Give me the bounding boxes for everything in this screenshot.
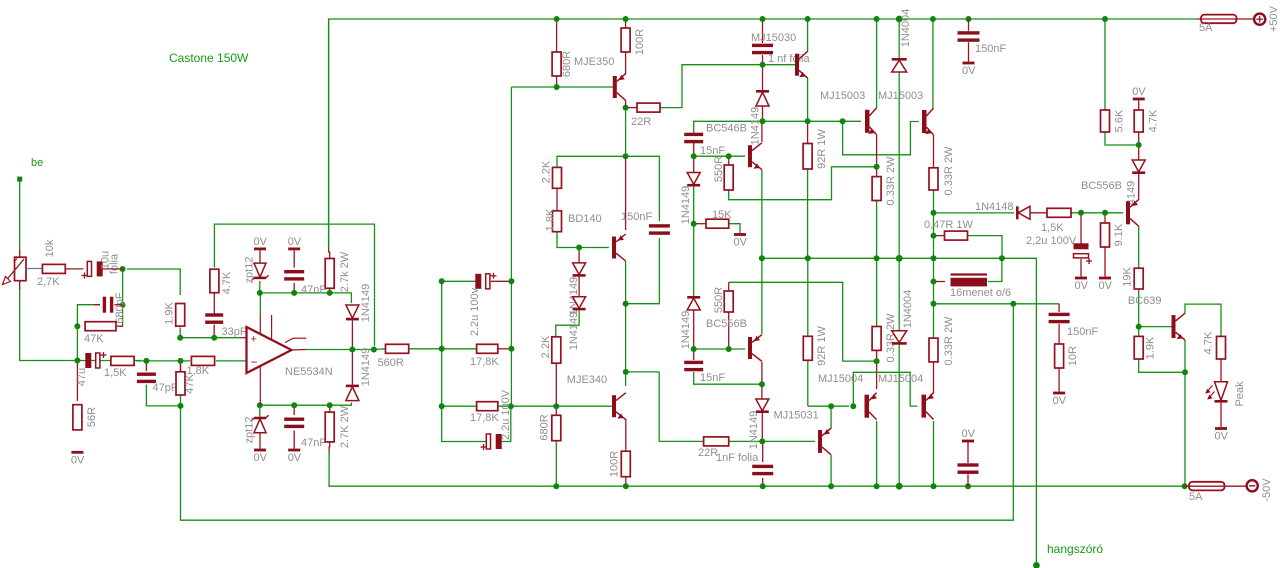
junction zobel tap [931,301,937,307]
svg-text:0V: 0V [734,237,748,249]
wire MJ15030 collector up [807,19,809,52]
junction BC546B collector [760,118,766,124]
wire 15nF1 top jog [694,121,763,133]
wire 0.33R3 bottom node [876,350,878,361]
wire BC556B3 collector down [1138,226,1140,268]
wire 0.47R left [934,235,945,237]
wire bypass bottom [967,474,969,486]
svg-text:560R: 560R [378,357,404,369]
wire opamp output [292,349,307,352]
svg-text:1nF folia: 1nF folia [716,452,759,464]
resistor 17,8K1 [477,344,498,353]
junction 550R1 top [726,153,732,159]
zener zpt12 bottom [254,419,266,433]
capacitor 2.2u1 [475,274,481,289]
junction 47K2 node [178,358,184,364]
capacitor 2.2u3 [1074,243,1089,249]
transistor BC556B3 [1126,201,1130,224]
junction VAS out [623,301,629,307]
svg-text:2.7K 2W: 2.7K 2W [339,405,351,448]
resistor 47K2 [176,372,185,395]
svg-text:hangszóró: hangszóró [1047,542,1103,556]
wire 1N4148c bottom [693,310,695,349]
transistor MJ15030 [795,54,799,76]
ground 0V LED [1215,427,1227,430]
transistor MJE350 [613,76,617,98]
junction bus 92R [805,255,811,261]
svg-text:zpt12: zpt12 [244,417,256,444]
wire diode pair column [578,248,580,263]
wire 2.2u3 bottom [1080,259,1082,277]
junction bottom rail cap [965,483,971,489]
svg-text:+: + [251,334,257,346]
resistor 0.33R 2W 1 [872,177,881,201]
resistor 22R2 [704,437,729,446]
wire diode pair bottom jog [556,310,579,336]
label + 2.2u2 [481,446,487,448]
svg-text:0V: 0V [71,454,85,466]
label + 2.2u1 [491,275,497,277]
capacitor 15nF2 [684,361,703,364]
wire opamp V+ rail node [260,281,352,303]
ground 0V 47nF1 [288,248,300,251]
svg-text:17,8K: 17,8K [470,356,499,368]
svg-text:150nF: 150nF [621,211,652,223]
junction 680pF right [120,302,126,308]
transistor MJE340 [612,395,616,417]
wire 22R2 right [729,440,763,442]
wire BD140 base wire [579,247,609,249]
svg-text:9.1K: 9.1K [1113,223,1125,246]
wire lower 0.33R4 top [933,258,935,338]
wire 1nF2 bottom [762,478,764,486]
wire MJ15031 base wire [762,440,815,442]
wire 4.7K2 top [1138,101,1140,111]
wire BC639 collector up jog [1185,304,1221,336]
svg-text:15nF: 15nF [700,372,725,384]
capacitor rail bypass bottom [958,463,979,466]
ground 0V zpt12 bottom [254,449,266,452]
wire 47nF1 top [293,250,295,267]
junction +input node [177,335,183,341]
junction top rail 150nF [966,16,972,22]
capacitor 150nF2 [649,224,670,227]
wire 1N4148b bottom [693,186,695,224]
junction 33pF node [211,335,217,341]
svg-text:1N4149: 1N4149 [360,284,372,323]
wire lower 0.33R4 bottom [933,362,935,393]
svg-text:0V: 0V [962,428,976,440]
terminal be [17,177,22,182]
junction zobel feedback [1010,301,1016,307]
ground 56R [71,451,83,454]
junction bottom rail 100R2 [623,483,629,489]
junction output node [371,347,377,353]
junction lower base jog [850,403,856,409]
capacitor 1nf folia [752,44,773,47]
svg-text:5.6K: 5.6K [1114,109,1126,132]
wire 680pF left jog to 47K [77,305,100,327]
wire 4.7K3 to LED [1220,359,1222,382]
wire cap1nf bottom [762,55,764,65]
capacitor 47u [85,353,91,368]
svg-text:550R: 550R [713,287,725,313]
wire 4.7K2 bottom [1138,132,1140,145]
wire 2.7k top feed [329,289,331,293]
svg-text:0V: 0V [962,65,976,77]
diode 1N4148 clamp up [346,305,359,318]
wire clamp diode column lower [351,350,353,385]
resistor 2.2K [553,167,562,188]
transistor BC639 [1172,315,1176,338]
wire 47K2 node down [180,361,182,371]
junction bottom rail MJ15031 [828,483,834,489]
wire driver base bus [763,120,862,122]
wire 0.33R1 bottom to bus [876,201,878,259]
capacitor 150nF top right [958,31,980,34]
diode 1N4148 pairA [573,263,586,275]
wire 0.33R1 top [876,167,878,177]
svg-text:1N4004: 1N4004 [902,290,914,329]
svg-text:0.33R 2W: 0.33R 2W [943,146,955,196]
junction bus inductor [999,255,1005,261]
svg-text:92R 1W: 92R 1W [816,129,828,169]
junction 0.33R3 bottom [874,358,880,364]
svg-text:150nF: 150nF [975,43,1006,55]
resistor 15K [706,219,729,228]
svg-text:5A: 5A [1199,22,1213,34]
junction node X [120,266,126,272]
svg-text:MJ15031: MJ15031 [774,410,819,422]
wire 1N4004 column bottom [898,341,900,487]
wire 560R right node [409,348,477,350]
ground 0V 9.1K [1099,277,1111,280]
wire BC546B emitter to bus [761,170,763,258]
resistor 100R2 [621,451,630,477]
wire 17.8K2 row [442,405,477,407]
inductor 16menet [951,273,988,275]
wire 680pF right [114,304,122,306]
svg-text:47K: 47K [84,333,104,345]
zener zpt12 top [254,263,266,277]
resistor 47K [85,322,116,331]
wire 47K node down to input row [76,326,78,360]
resistor 560R [386,344,409,353]
wire 47pF bottom jog [146,385,180,406]
svg-text:4.7K: 4.7K [221,271,233,294]
svg-text:15K: 15K [712,209,732,221]
diode 1N4148c [687,298,700,310]
junction MJE340 base node [508,403,514,409]
wire 1N4004 column mid [898,72,900,331]
wire zobel cap-res [1058,324,1060,344]
wire 1N4148h to 1.5K [1030,212,1047,214]
capacitor 47pF [137,373,156,376]
svg-text:MJ15003: MJ15003 [820,90,865,102]
wire 15K right to gnd [729,224,740,233]
wire 1N4148e top [1138,145,1140,160]
svg-text:0.33R 2W: 0.33R 2W [943,316,955,366]
wire node X horizontal [127,269,180,295]
ground 0V 150nF1 [963,62,975,65]
svg-text:550R: 550R [713,156,725,182]
wire 150nF2 loop [626,156,660,221]
resistor 1.9K input [176,304,185,327]
resistor 9.1K [1101,223,1110,247]
wire MJE350 collector [625,100,627,108]
wire MJE340 emitter lead [625,419,627,451]
svg-text:680pF: 680pF [114,292,126,323]
junction top rail 680R [554,16,560,22]
svg-text:2.2u 100V: 2.2u 100V [500,389,512,440]
wire 47nF2 top [293,405,295,415]
wire lower base bus [808,405,849,407]
wire 150nF1 bottom [968,42,970,61]
wire x625 vas column [625,261,627,386]
wire MJE350 base node [511,86,613,88]
junction top rail 1nf [760,16,766,22]
wire 9.1K bottom [1104,247,1106,277]
wire base bus branch down [843,121,919,155]
ground 0V 4.7K2 [1133,98,1145,101]
wire limiter wire right [934,212,1015,214]
svg-text:0V: 0V [254,452,268,464]
wire 100R2 bottom [625,477,627,487]
svg-text:33pF: 33pF [222,326,247,338]
wire 0.47R right jog [968,236,1003,259]
wire MJ15003-2 collector up [932,19,935,108]
wire 100R1 top [625,19,627,28]
ground 0V 47nF2 [288,449,300,452]
transistor BC556B2 [748,337,752,359]
wire bottom -50V rail [329,453,1185,487]
potentiometer P1 10k [15,257,27,281]
svg-text:BC546B: BC546B [706,123,747,135]
svg-text:10R: 10R [1067,346,1079,366]
wire pot bottom to input row [20,288,141,361]
wire 92R2 bottom jog [807,360,809,406]
junction bottom rail 1N4004 [896,483,903,490]
svg-text:0V: 0V [1099,280,1113,292]
diode 1N4148e [1132,160,1145,172]
wire 22R2 left jog [659,372,703,442]
wire opamp V- rail node [260,403,352,435]
svg-text:2.2K: 2.2K [540,335,552,358]
resistor 5.6K [1101,110,1110,132]
svg-text:BC639: BC639 [1128,295,1162,307]
junction MJ15031 base node [759,438,765,444]
label + 47u [101,354,107,356]
junction bus 0.33R1 [874,255,880,261]
junction bus 0.33R4 [931,255,937,261]
wire input row segment [136,360,190,362]
junction BC556B2 collector [759,381,765,387]
wire 2.7K1 long feed [328,19,330,247]
svg-text:4.7K: 4.7K [1148,109,1160,132]
resistor 2.7k 2W [325,259,334,289]
junction MJ15031 emitter [828,403,834,409]
junction bottom rail 1nF2 [760,483,766,489]
fuse 5A top [1196,18,1254,20]
junction 560R right [439,346,445,352]
svg-text:0V: 0V [254,236,268,248]
junction MJ15030 base node [760,62,766,68]
wire MJ15004-2 collector down [933,421,935,486]
svg-text:−: − [251,355,258,369]
wire 550R1 top [728,156,730,165]
wire 92R2 top [807,258,809,336]
capacitor 47nF1 [284,270,304,273]
wire 1N4148d top [761,384,763,399]
resistor 0.33R 2W 3 [872,327,881,351]
terminal hangszoro [1033,562,1040,568]
junction 15K node [691,221,697,227]
wire 150nF1 top [968,19,970,31]
wire 1.8K bottom jog [557,232,579,248]
svg-text:22R: 22R [631,116,651,128]
svg-text:100R: 100R [609,451,621,477]
junction 17.8K2 left [439,403,445,409]
junction 15nF1 node [691,153,697,159]
ground 0V 15K [734,233,746,236]
wire 100R1 bottom to MJE350 emitter [625,52,627,74]
ground 0V bypass [962,440,974,443]
wire 680R2 bottom [555,441,557,487]
wire BC556B2 emitter to bus [761,258,763,334]
wire 2.2u3 down [1080,213,1082,244]
junction MJE350 collector [623,105,629,111]
wire 47K right [116,325,123,327]
resistor 100R [621,28,630,52]
wire BC546B base [694,155,745,157]
svg-text:92R 1W: 92R 1W [816,326,828,366]
wire 2.2K2 bottom [555,363,557,406]
wire MJ15003-1 collector up [876,19,878,108]
svg-text:MJE350: MJE350 [574,56,614,68]
resistor 0.33R 2W 4 [929,338,938,362]
wire +input pin [241,337,247,339]
junction top rail 1N4004 [896,16,903,23]
svg-text:1N4149: 1N4149 [680,311,692,350]
junction top rail MJ15030 [805,16,811,22]
junction base bus branch [840,118,846,124]
transistor BD140 [612,237,616,259]
svg-text:4.7K: 4.7K [1203,331,1215,354]
resistor 10R [1055,344,1064,368]
wire 15nF2 top [693,349,695,360]
terminal -50V [1247,480,1258,491]
wire 550R1 bottom jog [729,167,877,200]
wire 19K bottom [1138,289,1140,336]
svg-text:BC556B: BC556B [1081,180,1122,192]
svg-text:5A: 5A [1189,491,1203,503]
transistor MJ15031 [818,430,822,453]
junction 17.8K1 right [508,346,514,352]
svg-text:+50V: +50V [1268,5,1280,32]
svg-text:MJ15004: MJ15004 [878,373,923,385]
svg-text:0V: 0V [1053,395,1067,407]
svg-text:1.9K: 1.9K [164,302,176,325]
wire 33pF to +input node [213,325,215,338]
wire 2.2K1 top jog [557,156,626,167]
svg-text:47u: 47u [76,368,88,386]
wire 2.7K to 10u [65,268,83,270]
junction 550R2 bottom [726,346,732,352]
capacitor 2.2u2 [486,434,490,449]
capacitor 150nF zobel [1049,313,1070,316]
wire 15nF2 bottom jog [694,372,762,384]
junction BC556B2 base node [691,346,697,352]
wire lower 0.33R3 top [876,258,878,326]
resistor 4.7K2 [1134,110,1143,132]
wire 17.8K2 right to MJE340 base [498,405,612,407]
wire 1N4148e bottom to emitter [1138,174,1140,200]
capacitor 15nF1 [684,133,703,136]
transistor MJ15004-1 [865,395,870,418]
svg-text:NE5534N: NE5534N [285,366,333,378]
svg-text:folia: folia [109,253,121,274]
wire 1N4148b top [693,156,695,174]
svg-text:10k: 10k [44,239,56,257]
svg-text:1N4004: 1N4004 [900,9,912,48]
resistor 1,8K [191,356,214,365]
junction limiter 2.2u3 [1078,210,1084,216]
junction limiter 9.1K [1102,210,1108,216]
wire VAS feed column x511 [510,87,512,406]
svg-text:MJ15003: MJ15003 [878,90,923,102]
junction top rail 100R [623,16,629,22]
capacitor 1nF folia 2 [752,465,773,468]
svg-text:-50V: -50V [1261,478,1273,502]
svg-text:2,2u 100V: 2,2u 100V [1026,235,1077,247]
diode 1N4148h [1018,206,1030,219]
resistor 56R [73,405,82,430]
junction BC639 emitter node [1182,369,1188,375]
op-amp NE5534N [247,327,292,373]
wire 1.5K2 to base [1071,212,1123,214]
wire 1.9K to +input node [180,328,241,338]
diode 1N4004 bottom [892,331,907,343]
wire MJE340 coll node wire [626,371,659,373]
svg-text:0V: 0V [1215,431,1229,443]
resistor 680R [552,52,561,76]
wire lower base jog [853,372,917,406]
wire 1N4004 column [898,19,900,58]
resistor 92R 1W 2 [803,336,812,360]
wire 92R1 bottom to bus [807,169,809,258]
svg-text:150nF: 150nF [1067,326,1098,338]
wire 47pF branch [145,361,147,371]
wire bypass top [967,443,969,463]
svg-text:1,5K: 1,5K [104,367,127,379]
svg-text:2.2u 100v: 2.2u 100v [469,287,481,336]
wire input 'be' drop [19,179,21,250]
wire 10u to node X [102,268,123,270]
wire 2.2u2 right up [501,406,511,441]
svg-text:zpt12: zpt12 [244,257,256,284]
svg-text:MJ15030: MJ15030 [751,32,796,44]
wire BD140 emitter up [625,156,627,230]
svg-text:0.33R 2W: 0.33R 2W [885,313,897,363]
diode 1N4148b [687,173,700,185]
wire 680R1 bottom [556,76,558,87]
svg-text:be: be [31,157,43,169]
wire 2.2K1-1.8K join [556,188,558,211]
svg-text:Castone 150W: Castone 150W [169,51,249,65]
wire 2.2u1 row [442,280,476,282]
wire cap1nf top [762,19,764,43]
transistor MJ15004-2 [922,395,927,418]
